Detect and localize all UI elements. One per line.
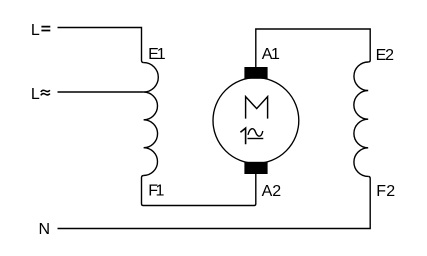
motor M1 armature circle [213, 78, 299, 164]
svg-text:L: L [31, 86, 40, 103]
svg-text:1: 1 [271, 46, 280, 63]
svg-text:F: F [376, 183, 386, 200]
svg-text:1: 1 [157, 46, 166, 63]
wire L= supply line to E1 [58, 28, 144, 63]
wire A1 to E2 [256, 29, 370, 67]
svg-text:A2: A2 [262, 183, 282, 200]
inductor E2-F2 (right field winding) [354, 62, 368, 176]
wire F2 to N [58, 176, 371, 228]
wire F1 to A2 [142, 174, 256, 206]
brush terminal A1 (top black block) [244, 67, 267, 79]
svg-text:1: 1 [156, 183, 165, 200]
motor phase number 1 [240, 128, 245, 144]
wire L~ supply line to coil tap [58, 91, 144, 93]
svg-text:2: 2 [385, 47, 394, 64]
brush terminal A2 (bottom black block) [244, 162, 267, 174]
motor letter M [246, 97, 268, 119]
svg-text:L: L [31, 22, 40, 39]
svg-text:2: 2 [386, 183, 395, 200]
svg-text:N: N [39, 221, 51, 238]
motor AC/DC tilde symbol with underline [248, 129, 263, 136]
inductor E1-F1 (left field winding, tapped) [144, 63, 159, 176]
